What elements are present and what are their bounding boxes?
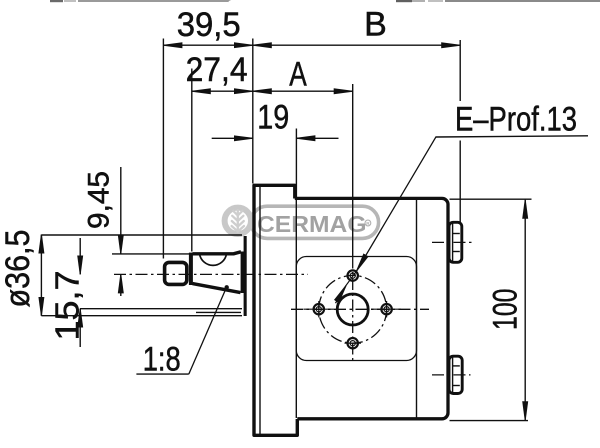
svg-text:A: A bbox=[289, 55, 307, 93]
svg-text:100: 100 bbox=[487, 289, 525, 331]
svg-text:ø36,5: ø36,5 bbox=[0, 230, 37, 308]
svg-text:39,5: 39,5 bbox=[177, 6, 241, 44]
svg-text:19: 19 bbox=[257, 98, 289, 136]
svg-text:1:8: 1:8 bbox=[143, 341, 181, 379]
svg-text:B: B bbox=[364, 5, 387, 43]
svg-text:E–Prof.13: E–Prof.13 bbox=[455, 101, 577, 139]
svg-text:15,7: 15,7 bbox=[49, 271, 86, 341]
svg-text:9,45: 9,45 bbox=[83, 171, 116, 229]
svg-text:27,4: 27,4 bbox=[186, 51, 248, 89]
svg-text:CERMAG: CERMAG bbox=[257, 211, 367, 237]
